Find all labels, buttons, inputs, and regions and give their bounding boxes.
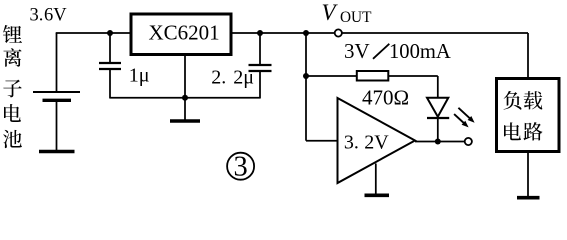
svg-text:XC6201: XC6201 [149,21,220,45]
label: VOUT [322,0,373,26]
label: load text char 路 [523,122,542,140]
label: battery text char 锂 [3,25,22,43]
capacitor C1 1u [99,33,121,99]
svg-text:2μ: 2μ [233,67,254,89]
label: battery text char 离 [3,48,21,67]
wire: junction to resistor [306,75,357,77]
node: regulator input junction (1u cap tap) [107,30,113,36]
wire: resistor to LED anode [388,76,438,99]
wire: regulator output to VOUT rail [231,32,334,34]
svg-text:2V: 2V [364,131,389,153]
svg-text:3V: 3V [344,39,370,63]
wire: regulator ground pin down to ground rail [184,54,186,99]
svg-text:470Ω: 470Ω [362,85,409,109]
node: VOUT branch junction [303,30,309,36]
resistor R1 470 ohm [357,71,389,81]
node: resistor branch junction [303,73,309,79]
ground: under detector [365,164,390,196]
battery BT1 (lithium-ion) [33,33,80,152]
node: 2.2u cap junction on output rail [257,30,263,36]
svg-text:V: V [322,0,339,25]
LED light emission arrows [454,108,475,128]
capacitor C2 2.2u [249,33,272,99]
node: LED cathode / output junction [435,139,441,145]
svg-text:3: 3 [233,152,247,183]
svg-text:2.: 2. [211,67,226,89]
node VOUT: open terminal [335,29,342,36]
svg-text:1μ: 1μ [129,65,150,87]
label: output rating 3V/100mA [344,39,451,63]
label: load text char 负 [504,91,522,110]
svg-text:100mA: 100mA [389,41,451,63]
figure number circled 3 [227,152,254,183]
op-amp U2 voltage detector 3.2V [338,98,416,183]
ground: under load circuit [517,196,540,200]
load circuit box [497,79,560,152]
wire: detector input [306,140,338,142]
regulator U1 XC6201 [131,14,231,55]
wire: load circuit to ground [527,152,529,197]
svg-text:3.: 3. [30,5,44,25]
svg-text:6V: 6V [44,5,67,25]
label: battery text char 电 [4,104,21,122]
svg-text:OUT: OUT [340,9,372,26]
label: detector threshold 3.2V [344,131,389,153]
wire: top rail from battery to regulator input [56,32,131,34]
label: load text char 载 [524,91,543,109]
label: load text char 电 [504,122,521,140]
wire: main vertical branch from VOUT junction [305,33,307,141]
LED D1 [427,98,449,142]
label: battery text char 子 [3,80,21,98]
wire: capacitor ground rail [110,97,260,99]
node: open output terminal [465,138,472,145]
label: battery text char 池 [3,130,22,148]
svg-text:3.: 3. [344,131,359,153]
ground: under regulator [170,98,200,121]
wire: VOUT rail to load circuit [342,32,528,34]
wire: detector output [415,141,464,143]
wire: load circuit top feed [527,33,529,78]
node: ground rail junction [182,95,188,101]
